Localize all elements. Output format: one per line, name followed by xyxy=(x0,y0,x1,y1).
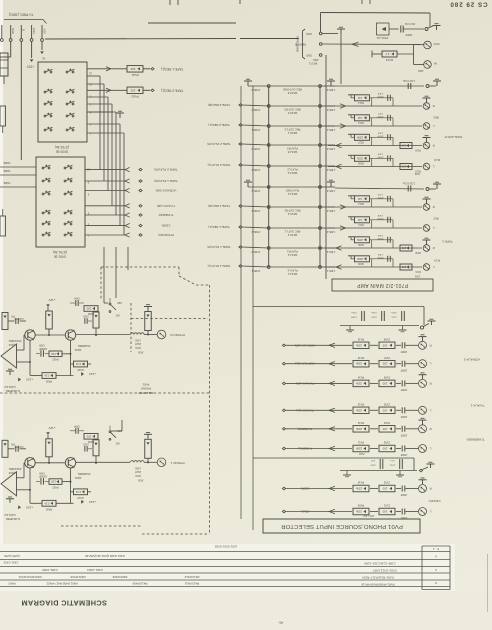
pin label GND xyxy=(11,28,15,34)
svg-text:Q402: Q402 xyxy=(74,348,81,352)
svg-text:RV16: RV16 xyxy=(357,338,364,341)
wire selector top rail xyxy=(253,307,424,326)
svg-text:C408: C408 xyxy=(39,471,45,473)
switch S702-3b box xyxy=(38,62,87,142)
svg-text:R418: R418 xyxy=(77,496,84,499)
label TV/AUX-1 xyxy=(470,404,484,408)
svg-text:JJ06-1: JJ06-1 xyxy=(326,128,335,132)
svg-text:B: B xyxy=(22,29,26,31)
label TAPE-2/OUT xyxy=(444,135,462,139)
dashed box phono left upper xyxy=(100,267,102,299)
svg-text:R401 R405 R417~R422: R401 R405 R417~R422 xyxy=(46,582,77,586)
node selector top xyxy=(420,319,435,329)
pin label 115V xyxy=(32,28,36,34)
svg-text:SV02-3b: SV02-3b xyxy=(56,150,69,154)
svg-text:1000P: 1000P xyxy=(400,388,407,390)
selector box PV01 xyxy=(263,519,420,533)
svg-text:2.2k: 2.2k xyxy=(75,490,81,494)
right edge mark xyxy=(487,554,489,612)
svg-text:220k: 220k xyxy=(356,257,363,261)
svg-text:220k: 220k xyxy=(355,408,362,412)
ground above jack VCR/AUX-2(R) xyxy=(419,335,427,341)
wire bus row PLAY-R1 xyxy=(239,246,335,249)
svg-text:JV05-3: JV05-3 xyxy=(251,189,260,193)
label VCR/AUX-2 xyxy=(463,358,480,362)
svg-text:R: R xyxy=(429,487,432,491)
wire bus row PLAY-R2 xyxy=(239,143,335,146)
svg-text:220k: 220k xyxy=(356,238,363,242)
svg-text:PHONO R: PHONO R xyxy=(170,333,185,337)
bracket To P901 xyxy=(296,29,306,59)
label TAPE-2 REC(L) xyxy=(208,123,230,127)
node JV05-2 xyxy=(251,247,270,254)
label REC upper xyxy=(433,116,438,119)
label TUNER/DBS xyxy=(467,438,485,442)
svg-text:TAPE-2 REC(L): TAPE-2 REC(L) xyxy=(208,123,230,127)
resistor RV21 xyxy=(127,66,143,77)
label PHONO(R) xyxy=(158,233,174,237)
junction dots L xyxy=(29,462,149,491)
page number -41- xyxy=(278,621,284,625)
svg-text:RJ02: RJ02 xyxy=(415,251,421,253)
svg-text:1M: 1M xyxy=(357,197,362,201)
svg-text:JV01-2/2: JV01-2/2 xyxy=(363,514,375,518)
svg-text:QV05 QV06: QV05 QV06 xyxy=(4,554,20,558)
svg-text:1000P: 1000P xyxy=(377,237,384,239)
svg-text:WF14-2: WF14-2 xyxy=(287,171,297,175)
label PLAY lower xyxy=(434,259,441,262)
jack R at y145.5 xyxy=(423,142,434,149)
registration tick marks xyxy=(170,0,370,5)
phono PHONO L transistor Q403 xyxy=(25,458,35,468)
label TAPE-1 xyxy=(442,240,453,244)
label TAPE-1 PLAY(L) xyxy=(208,264,231,268)
svg-text:WF15-4: WF15-4 xyxy=(287,212,297,216)
svg-text:N-JM4558D: N-JM4558D xyxy=(6,389,20,393)
svg-text:1000P: 1000P xyxy=(377,115,384,117)
phono PHONO L +12V feed xyxy=(46,426,55,439)
label TV/AUX-1(R) xyxy=(157,204,175,208)
node JJ05-1 xyxy=(319,266,336,273)
wire to TAPE-1 REC(L) xyxy=(143,68,154,71)
svg-text:RJ06: RJ06 xyxy=(358,262,364,265)
label TAPE-1 REC(R) xyxy=(208,204,230,208)
phono PHONO L wire interstage xyxy=(35,457,65,463)
phono PHONO L label G401-1/2 xyxy=(4,513,20,521)
svg-text:C437: C437 xyxy=(370,464,376,466)
svg-text:L: L xyxy=(429,362,431,366)
svg-text:J403: J403 xyxy=(418,69,424,73)
svg-text:6: 6 xyxy=(89,111,91,115)
wire bus row PLAY-GND xyxy=(244,180,335,187)
svg-text:R402 RV06: R402 RV06 xyxy=(70,575,85,579)
phono PHONO L transistor Q401 xyxy=(65,458,75,468)
jack L at y126 xyxy=(423,123,434,130)
svg-text:L402: L402 xyxy=(135,339,141,342)
svg-text:100: 100 xyxy=(382,343,387,347)
pin GND upper xyxy=(306,32,322,36)
svg-text:JJ05-4: JJ05-4 xyxy=(326,168,335,172)
svg-text:100: 100 xyxy=(401,144,406,148)
label CD/CDV xyxy=(428,499,441,503)
svg-text:R403: R403 xyxy=(8,582,15,586)
svg-text:L: L xyxy=(432,226,434,230)
wire S701 input TV/AUX-1(R) xyxy=(85,204,142,208)
wire S701 input TAPE-1 PLAY(R) xyxy=(85,179,142,183)
svg-text:LV01 SV01 SV02: LV01 SV01 SV02 xyxy=(214,545,237,549)
svg-text:RJ23: RJ23 xyxy=(415,170,421,172)
svg-text:TAPE-1 PLAY(R): TAPE-1 PLAY(R) xyxy=(207,245,230,249)
capacitor C402 L xyxy=(83,442,92,451)
dashed selector right edge xyxy=(209,285,211,534)
jack R at y207 xyxy=(423,204,434,211)
pin label -15V xyxy=(42,28,46,34)
svg-text:1000P: 1000P xyxy=(400,453,407,455)
left edge component xyxy=(0,53,8,84)
phono PHONO R inductor L402 xyxy=(131,333,145,354)
svg-text:PLAY: PLAY xyxy=(434,158,441,161)
phono PHONO R switch MM/MC xyxy=(109,298,121,317)
svg-text:JV06-4: JV06-4 xyxy=(251,209,260,213)
dashed mid horizontal xyxy=(0,392,209,394)
svg-text:220k: 220k xyxy=(355,362,362,366)
svg-text:1000P: 1000P xyxy=(400,493,407,495)
svg-text:Q403: Q403 xyxy=(8,471,15,475)
phono PHONO L resistor R422 xyxy=(49,468,71,489)
bus vertical JV column line xyxy=(268,86,270,267)
wire bus row PLAY-L1 xyxy=(239,265,335,268)
svg-text:CV02: CV02 xyxy=(383,481,390,484)
connector header To P801 (J801) label xyxy=(9,13,33,17)
label PLAY upper xyxy=(434,158,441,161)
ground above jack y248 xyxy=(423,238,431,244)
jack R at y106 xyxy=(423,103,434,110)
phono PHONO L capacitor C408 xyxy=(36,471,49,484)
svg-text:2SK246BL: 2SK246BL xyxy=(8,467,21,471)
svg-text:RV13: RV13 xyxy=(357,403,364,406)
wire upper rail segment xyxy=(148,22,236,24)
svg-text:WF14-3: WF14-3 xyxy=(287,192,297,196)
connector header bracket xyxy=(4,20,47,24)
svg-text:JJ01: JJ01 xyxy=(414,275,420,279)
node JJ06-1 xyxy=(319,125,336,132)
svg-text:WF14-5: WF14-5 xyxy=(287,150,297,154)
label CD(L) xyxy=(282,510,309,514)
svg-text:CV01~CV12 C437: CV01~CV12 C437 xyxy=(373,569,397,573)
svg-text:(P/O): (P/O) xyxy=(135,474,141,477)
selector box title xyxy=(281,523,403,529)
svg-text:JJ06-4: JJ06-4 xyxy=(326,209,335,213)
label PV01 PHONO SELECTOR xyxy=(138,383,153,396)
svg-text:CD/CDV: CD/CDV xyxy=(428,499,441,503)
svg-text:R: R xyxy=(433,205,435,209)
svg-text:JV06-2: JV06-2 xyxy=(251,230,260,234)
svg-text:WF16-1: WF16-1 xyxy=(287,131,297,135)
svg-text:1000P: 1000P xyxy=(400,415,407,417)
svg-text:1M: 1M xyxy=(357,96,362,100)
bus vertical riser B xyxy=(252,86,254,530)
switch S701-3b box xyxy=(36,157,85,247)
phono PHONO R transistor Q402 xyxy=(65,330,75,340)
table part numbers xyxy=(3,547,439,587)
label TUNER(L) xyxy=(282,447,312,451)
node JV05-5 xyxy=(251,144,270,151)
left edge component upper xyxy=(0,106,6,133)
svg-text:JJ05-2: JJ05-2 xyxy=(326,250,335,254)
wire remote top rail xyxy=(321,13,431,33)
svg-text:R: R xyxy=(429,427,432,431)
svg-text:R: R xyxy=(433,104,435,108)
phono PHONO L label Q403 xyxy=(8,467,21,475)
svg-text:MM: MM xyxy=(117,301,121,304)
ground below C437 xyxy=(343,471,351,477)
node JV05-4 xyxy=(251,165,270,172)
phono PHONO R capacitor C404 xyxy=(70,297,84,307)
svg-text:SCHEMATIC DIAGRAM: SCHEMATIC DIAGRAM xyxy=(21,599,107,608)
svg-text:220k: 220k xyxy=(355,510,362,514)
svg-text:CV10: CV10 xyxy=(370,316,376,318)
svg-text:CJ08: CJ08 xyxy=(377,214,383,216)
resistor RJ12 network row xyxy=(328,214,422,230)
svg-text:100: 100 xyxy=(51,480,56,484)
wire rec row 1 xyxy=(87,67,127,71)
svg-text:R422: R422 xyxy=(52,358,59,361)
jack TV/AUX-1(R) xyxy=(419,379,432,387)
svg-text:+15V: +15V xyxy=(26,65,34,69)
capacitor C402 R xyxy=(83,315,92,324)
svg-text:RV01~RV08 RV09~RV16: RV01~RV08 RV09~RV16 xyxy=(361,583,394,587)
phono PHONO L +12V arrow left xyxy=(18,505,33,509)
phono PHONO R resistor left edge vertical xyxy=(2,313,8,330)
svg-text:100: 100 xyxy=(86,434,91,438)
svg-text:TAPE-2 REC(R): TAPE-2 REC(R) xyxy=(208,103,230,107)
svg-text:-B: -B xyxy=(43,57,46,61)
svg-text:GND: GND xyxy=(11,28,15,34)
pin label B xyxy=(22,29,26,31)
switch S702-3b label xyxy=(55,145,69,154)
svg-text:CJ05: CJ05 xyxy=(377,132,383,134)
svg-text:10000P: 10000P xyxy=(39,475,47,477)
svg-text:Q401: Q401 xyxy=(74,476,81,480)
svg-text:TAPE-1: TAPE-1 xyxy=(442,240,453,244)
table right column box xyxy=(422,546,450,590)
svg-text:2.2k: 2.2k xyxy=(44,501,50,505)
svg-text:P701-2/2 MAIN AMP: P701-2/2 MAIN AMP xyxy=(357,282,409,288)
wire S701 input CD(R) xyxy=(85,223,142,227)
svg-text:P/O: P/O xyxy=(11,442,15,444)
svg-text:RV15: RV15 xyxy=(357,356,364,359)
svg-text:1000P: 1000P xyxy=(377,217,384,219)
resistor RV15 input row xyxy=(286,356,418,370)
svg-text:CJ15 0.01u: CJ15 0.01u xyxy=(402,79,415,82)
phono PHONO R resistor R418 xyxy=(74,361,88,371)
svg-text:4: 4 xyxy=(89,123,91,127)
pin REMOTE xyxy=(295,43,322,47)
resistor RV11 input row xyxy=(286,441,418,455)
capacitor CV12 xyxy=(389,459,402,469)
jack IN xyxy=(414,61,437,69)
wire mid coupling rails xyxy=(253,458,417,471)
svg-text:CV07: CV07 xyxy=(383,356,390,359)
resistor R410 L vertical xyxy=(93,440,99,463)
wire S701 input TAPE-2 PLAY(R) xyxy=(85,167,142,171)
resistor RV09 input row xyxy=(286,504,418,518)
svg-text:RJ05: RJ05 xyxy=(358,162,364,165)
svg-text:TAPE: TAPE xyxy=(3,169,10,173)
svg-text:100: 100 xyxy=(401,265,406,269)
svg-text:TAPE-1 PLAY(L): TAPE-1 PLAY(L) xyxy=(208,264,231,268)
node JJ05-4 xyxy=(319,165,336,172)
svg-text:JV05-4: JV05-4 xyxy=(251,168,260,172)
svg-text:RV14: RV14 xyxy=(357,376,364,379)
svg-text:L: L xyxy=(432,165,434,169)
resistor RJ14 network row xyxy=(328,193,422,209)
svg-text:G401-1/2: G401-1/2 xyxy=(4,513,16,517)
svg-text:JJ05-5: JJ05-5 xyxy=(326,147,335,151)
jack TUNER(R) xyxy=(419,425,432,433)
table top text LV01 SV01 SV02 xyxy=(214,545,237,549)
svg-text:100: 100 xyxy=(86,307,91,311)
label TAPE-2 PLAY(R) xyxy=(207,142,230,146)
phono PHONO L resistor RV05 47k xyxy=(144,433,152,463)
connector label WF14-1 PLAY-L1 xyxy=(287,269,298,276)
svg-text:JV05-1: JV05-1 xyxy=(251,269,260,273)
svg-text:1000P: 1000P xyxy=(400,516,407,518)
svg-text:1: 1 xyxy=(87,234,89,238)
svg-text:2.2k: 2.2k xyxy=(75,362,81,366)
svg-text:2: 2 xyxy=(89,103,91,107)
phono PHONO R +12V feed xyxy=(46,298,55,311)
svg-text:100: 100 xyxy=(51,352,56,356)
svg-text:R415 R409: R415 R409 xyxy=(132,582,147,586)
bus vertical riser A xyxy=(240,86,242,519)
phono PHONO R wire to jack xyxy=(144,334,157,336)
svg-text:JJ06-5: JJ06-5 xyxy=(326,108,335,112)
svg-text:WF15-5: WF15-5 xyxy=(287,111,297,115)
svg-text:N-JM4558D: N-JM4558D xyxy=(6,517,20,521)
switch S701 pin numbers xyxy=(87,168,90,238)
resistor RJ08 network row xyxy=(328,234,422,253)
bottom lighter band xyxy=(0,591,492,630)
svg-text:MC: MC xyxy=(115,441,119,444)
label TAPE-1 PLAY(R) xyxy=(154,179,177,183)
svg-text:JJ06-3: JJ06-3 xyxy=(326,88,335,92)
jack OUT xyxy=(414,41,440,49)
node JV05-3 xyxy=(251,186,270,193)
svg-text:R422: R422 xyxy=(52,485,59,488)
svg-text:WF15-2: WF15-2 xyxy=(287,233,297,237)
node JV06-4 xyxy=(251,206,270,213)
phono PHONO R capacitor C408 xyxy=(36,344,49,357)
ground rail row mid xyxy=(335,182,441,192)
svg-text:A: A xyxy=(382,28,384,32)
label TV/AUX-1(R) xyxy=(282,381,314,385)
phono PHONO L wire fb mesh xyxy=(30,468,91,503)
resistor R410 R vertical xyxy=(93,312,99,335)
label VCR/AUX-2(L) xyxy=(282,362,315,366)
svg-text:TV/AUX-1(R): TV/AUX-1(R) xyxy=(157,204,175,208)
phono PHONO R resistor R414 vertical xyxy=(46,311,53,335)
ground opamp R xyxy=(6,369,14,375)
svg-text:RJ14: RJ14 xyxy=(358,202,364,205)
switch S702 pin numbers xyxy=(89,72,92,136)
svg-text:GND: GND xyxy=(306,54,312,58)
svg-text:R: R xyxy=(429,381,432,385)
wire rec row 2 xyxy=(87,88,127,92)
wire S701 feed down 1 xyxy=(104,247,108,303)
wire S701 feed down 2 xyxy=(115,247,117,298)
svg-text:C408: C408 xyxy=(39,344,45,346)
connector label WF15-2 REC OUT-L1 xyxy=(284,230,300,237)
svg-text:220k: 220k xyxy=(355,447,362,451)
wire L channel feed xyxy=(110,420,122,431)
svg-text:8: 8 xyxy=(435,581,437,585)
svg-text:+12V: +12V xyxy=(26,505,33,509)
phono PHONO R wire input xyxy=(76,334,130,336)
svg-text:C404: C404 xyxy=(74,297,80,299)
connector P801 pins xyxy=(0,25,43,41)
svg-text:220k: 220k xyxy=(355,343,362,347)
svg-text:R404 RV22 RV21: R404 RV22 RV21 xyxy=(18,575,41,579)
dashed selector top stub xyxy=(179,267,210,285)
svg-text:JJ05-3: JJ05-3 xyxy=(326,189,335,193)
svg-text:WF15-6: WF15-6 xyxy=(287,91,297,95)
connector label WF14-3 PLAY-GND xyxy=(286,189,299,196)
svg-text:RJ08: RJ08 xyxy=(358,243,364,246)
svg-text:C406 5P: C406 5P xyxy=(14,445,23,447)
label CD(R) xyxy=(162,224,171,228)
svg-text:C405~C408: C405~C408 xyxy=(42,568,58,572)
svg-text:R418: R418 xyxy=(77,368,84,371)
svg-text:R: R xyxy=(429,343,432,347)
jack R at y248 xyxy=(423,245,434,252)
svg-text:2SK246BL: 2SK246BL xyxy=(8,339,21,343)
svg-text:JV03: JV03 xyxy=(138,478,144,481)
connector label WF16-1 REC OUT-L2 xyxy=(284,128,300,135)
svg-text:(S701-3b): (S701-3b) xyxy=(53,250,67,254)
svg-text:TUNER(R): TUNER(R) xyxy=(159,213,174,217)
wire S701 feed down 3 xyxy=(127,247,129,270)
svg-text:CV04: CV04 xyxy=(383,421,390,424)
svg-text:PV01 PHONO,SOURCE INPUT SELECT: PV01 PHONO,SOURCE INPUT SELECTOR xyxy=(281,523,403,529)
connector label WF14-5 PLAY-R2 xyxy=(287,147,298,154)
wire left feed 2 xyxy=(0,169,36,175)
label TAPE-2 PLAY(R) xyxy=(154,168,177,172)
label REC lower xyxy=(433,217,438,220)
main amp label box P701-2/2 MAIN AMP xyxy=(332,279,433,291)
wire S701 input TUNER(R) xyxy=(85,213,142,217)
dashed bottom edge xyxy=(61,526,210,534)
junction dots R xyxy=(29,334,149,363)
svg-text:RV22: RV22 xyxy=(131,94,139,98)
svg-text:220k: 220k xyxy=(355,381,362,385)
left page margin xyxy=(0,0,3,630)
svg-text:WF14-4: WF14-4 xyxy=(287,253,297,257)
svg-text:Q404: Q404 xyxy=(8,343,15,347)
svg-text:TAPE: TAPE xyxy=(3,181,10,185)
svg-text:P701-1/2: P701-1/2 xyxy=(376,36,388,40)
svg-text:1M: 1M xyxy=(357,218,362,222)
ground near S702 xyxy=(87,111,124,118)
svg-text:TAPE: TAPE xyxy=(3,161,10,165)
phono PHONO L resistor R418 xyxy=(74,489,88,499)
label JV02 xyxy=(359,452,365,455)
svg-text:SELECTOR: SELECTOR xyxy=(138,391,153,395)
ground above jack TV/AUX-1(R) xyxy=(419,373,427,379)
phono PHONO L resistor R414 vertical xyxy=(46,439,53,463)
svg-text:2SA966BL: 2SA966BL xyxy=(77,344,90,348)
resistor RV22 xyxy=(127,87,143,98)
